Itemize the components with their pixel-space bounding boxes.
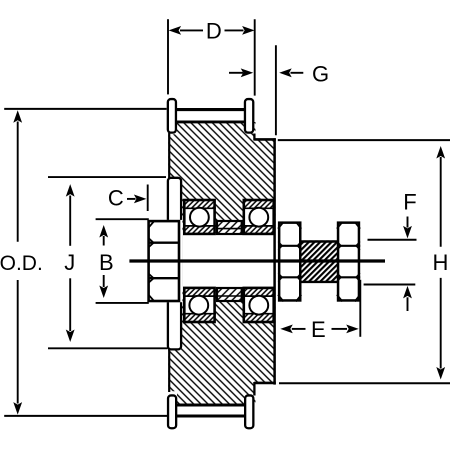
- body bottom step line: [254, 382, 276, 385]
- hex bolt head: [147, 220, 183, 302]
- washer plate: [168, 178, 181, 350]
- pulley flange top-left: [168, 99, 176, 133]
- dimension C arrow: [127, 198, 136, 200]
- dimension O.D. top extension line: [4, 108, 166, 110]
- dimension B arrow up: [99, 225, 108, 238]
- dimension J arrow down: [69, 278, 71, 331]
- bearing spacer bottom: [216, 288, 243, 301]
- dimension E extension line: [359, 280, 361, 337]
- dimension D arrow right: [225, 29, 244, 31]
- dimension G arrow: [279, 68, 292, 77]
- svg-text:C: C: [108, 186, 124, 211]
- bearing ball bottom-left: [189, 296, 208, 315]
- svg-text:B: B: [99, 250, 114, 275]
- dimension G inner arrow: [229, 72, 243, 74]
- pulley flange bottom-left: [168, 395, 176, 428]
- bearing ball bottom-right: [249, 296, 268, 315]
- belt surface top inner line: [176, 120, 244, 123]
- svg-text:H: H: [433, 250, 449, 275]
- dimension H bottom extension line: [279, 382, 450, 384]
- body right face edge: [273, 138, 276, 384]
- belt surface top outer line: [176, 108, 244, 111]
- dimension E arrow right: [332, 328, 348, 330]
- hex nut outer: [337, 222, 360, 301]
- dimension O.D. bottom extension line: [4, 415, 167, 417]
- svg-text:E: E: [311, 317, 326, 342]
- bearing ball top-left: [190, 208, 209, 227]
- hex nut inner: [278, 222, 302, 301]
- bearing spacer top: [216, 221, 243, 234]
- body left face edge: [168, 133, 170, 392]
- pulley flange bottom-right: [245, 395, 253, 428]
- pulley flange top-right: [245, 99, 253, 133]
- bolt shank white band through bore: [177, 233, 278, 289]
- bearing top-right box: [243, 200, 276, 234]
- dimension F arrow down: [407, 217, 409, 228]
- dimension B top extension line: [96, 218, 149, 220]
- dimension O.D. arrow down: [17, 280, 19, 404]
- dimension D left extension line: [167, 19, 169, 94]
- body right edge upper segment: [253, 134, 255, 141]
- svg-text:J: J: [64, 250, 75, 275]
- bearing top-left box: [183, 200, 216, 234]
- dimension F bottom extension line: [364, 284, 416, 286]
- bearing bottom-left box: [183, 288, 216, 322]
- dimension F top extension line: [368, 239, 417, 241]
- dimension B bottom extension line: [96, 302, 149, 304]
- dimension H arrow up: [436, 146, 445, 159]
- shaft axis center line: [129, 259, 385, 262]
- bearing bottom-right box: [243, 288, 276, 322]
- belt surface bottom white band: [177, 406, 244, 414]
- dimension D right extension line: [254, 19, 256, 95]
- svg-text:G: G: [312, 62, 329, 87]
- dimension G extension line: [275, 45, 277, 135]
- svg-text:O.D.: O.D.: [0, 252, 43, 275]
- dimension J top extension line: [48, 176, 166, 178]
- dimension J bottom extension line: [48, 347, 168, 349]
- belt surface bottom inner line: [176, 404, 244, 407]
- bearing ball top-right: [249, 208, 268, 227]
- svg-text:F: F: [403, 189, 416, 214]
- dimension H arrow down: [440, 278, 442, 369]
- belt surface top white band: [177, 111, 244, 120]
- dimension C extension line: [147, 185, 149, 212]
- svg-text:D: D: [206, 18, 222, 43]
- body right edge lower segment: [253, 382, 255, 396]
- dimension D arrow left: [169, 26, 182, 35]
- dimension H top extension line: [278, 139, 450, 141]
- dimension E arrow left: [280, 325, 293, 334]
- dimension O.D. arrow up: [13, 110, 22, 123]
- pulley body hatched section: [168, 122, 275, 405]
- threaded stud between nuts: [301, 240, 337, 283]
- dimension B arrow down: [103, 275, 105, 287]
- body top step line: [254, 138, 276, 141]
- dimension F arrow up: [403, 286, 412, 299]
- belt surface bottom outer line: [176, 415, 244, 418]
- dimension J arrow up: [66, 184, 75, 197]
